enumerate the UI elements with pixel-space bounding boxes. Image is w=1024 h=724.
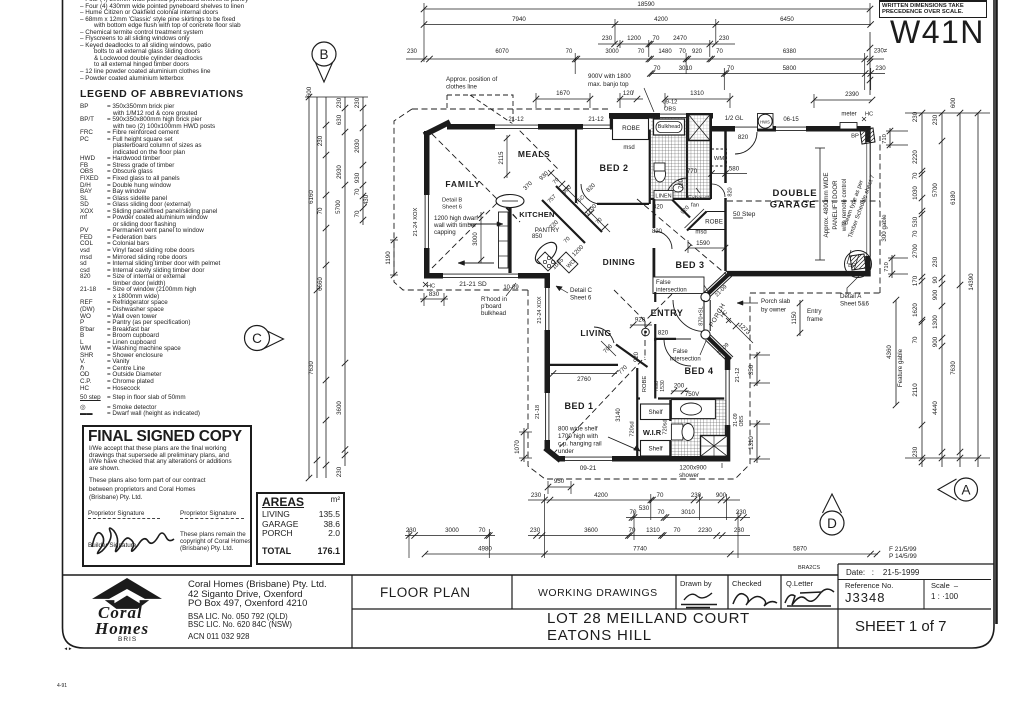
svg-text:430: 430 xyxy=(363,194,370,205)
svg-text:1530: 1530 xyxy=(660,380,666,392)
dim 1190 window xyxy=(393,240,395,275)
left dim chain D xyxy=(344,97,346,466)
svg-text:MEALS: MEALS xyxy=(518,149,550,159)
dim row 230 6070 70 3000 70 1480 70 920 70 6380 230 xyxy=(406,58,884,60)
left column: legend of abbreviations xyxy=(80,104,350,418)
bp pier top right xyxy=(860,128,875,144)
title block text xyxy=(188,580,327,609)
meals dim 2115 xyxy=(506,135,508,178)
marker A xyxy=(938,479,957,500)
svg-text:70: 70 xyxy=(638,49,645,55)
svg-text:2930: 2930 xyxy=(336,165,343,179)
roof hip dining xyxy=(614,290,676,321)
wall bath block top xyxy=(609,113,713,119)
final signed copy box xyxy=(82,425,252,567)
svg-text:70: 70 xyxy=(629,527,636,534)
roof hip bed4 xyxy=(644,321,646,360)
window 06-15 garage xyxy=(776,125,806,132)
linen cupboard xyxy=(654,191,673,201)
svg-text:70: 70 xyxy=(563,236,572,245)
svg-text:FAMILY: FAMILY xyxy=(445,179,480,189)
svg-text:3000: 3000 xyxy=(605,49,619,55)
svg-text:930: 930 xyxy=(354,172,361,183)
svg-text:3600: 3600 xyxy=(584,527,598,534)
svg-text:1150: 1150 xyxy=(792,311,798,325)
ens wc xyxy=(671,424,683,440)
svg-text:Shelf: Shelf xyxy=(648,409,662,416)
right chains bottom tie xyxy=(905,457,990,459)
svg-text:WM: WM xyxy=(714,156,724,162)
dim row 70 3010 70 5800 230 xyxy=(650,73,885,75)
dim 120 xyxy=(617,98,643,100)
svg-text:W.I.R: W.I.R xyxy=(643,428,662,437)
svg-text:920: 920 xyxy=(635,317,646,324)
svg-text:10-09: 10-09 xyxy=(503,285,519,291)
svg-text:2230: 2230 xyxy=(698,527,712,534)
svg-text:757: 757 xyxy=(547,194,558,205)
svg-text:PANELIFT DOOR: PANELIFT DOOR xyxy=(832,180,839,230)
svg-text:BED 4: BED 4 xyxy=(684,366,713,376)
wall wir ens divider xyxy=(669,400,671,421)
family arrow xyxy=(458,262,494,264)
svg-text:90: 90 xyxy=(932,276,939,283)
svg-text:DINING: DINING xyxy=(603,257,636,267)
title block top line xyxy=(63,574,839,576)
svg-text:09-12: 09-12 xyxy=(663,100,678,106)
ens vanity xyxy=(671,400,715,419)
roof valley dining-garage xyxy=(637,199,728,276)
builder signature squiggle xyxy=(86,515,178,559)
dim 2760 xyxy=(551,373,617,375)
svg-text:720sd: 720sd xyxy=(630,421,636,436)
svg-text:70: 70 xyxy=(912,336,919,343)
svg-text:bulkhead: bulkhead xyxy=(481,310,507,317)
svg-text:R'hood in: R'hood in xyxy=(481,296,508,303)
left dim chain B 6160 xyxy=(316,97,318,478)
svg-text:1200: 1200 xyxy=(571,244,585,258)
W41N xyxy=(890,14,985,51)
shower cubicle bath xyxy=(689,115,711,141)
svg-text:D: D xyxy=(827,516,837,531)
svg-text:HC: HC xyxy=(427,284,435,290)
dim 350 porch right xyxy=(756,352,758,386)
svg-text:530: 530 xyxy=(912,216,919,227)
svg-text:6160: 6160 xyxy=(308,190,315,204)
svg-text:max. banjo top: max. banjo top xyxy=(588,81,629,88)
svg-text:7630: 7630 xyxy=(308,361,315,375)
svg-text:1200: 1200 xyxy=(627,35,641,42)
svg-text:230: 230 xyxy=(875,65,886,72)
svg-text:230: 230 xyxy=(531,492,542,499)
svg-text:C: C xyxy=(252,331,262,346)
svg-text:230: 230 xyxy=(932,256,939,267)
kitchen bench left xyxy=(499,212,509,268)
kitchen stove xyxy=(537,252,556,271)
dim row C bottom xyxy=(405,535,495,537)
window 21-12 west xyxy=(495,123,538,130)
svg-text:170: 170 xyxy=(912,275,919,286)
svg-text:1590: 1590 xyxy=(696,240,710,247)
marker C xyxy=(261,328,284,350)
svg-text:900: 900 xyxy=(932,289,939,300)
wall wir west xyxy=(636,368,638,456)
svg-text:3600: 3600 xyxy=(336,401,343,415)
svg-text:750V: 750V xyxy=(685,391,700,398)
svg-text:70: 70 xyxy=(657,492,664,499)
svg-text:600: 600 xyxy=(950,97,957,108)
svg-text:7940: 7940 xyxy=(512,16,526,23)
svg-text:770: 770 xyxy=(687,168,698,175)
front door leaf xyxy=(703,300,705,331)
wall family left xyxy=(424,131,430,276)
svg-text:Entry: Entry xyxy=(807,308,822,315)
svg-text:5700: 5700 xyxy=(932,183,939,197)
svg-text:ROBE: ROBE xyxy=(622,125,640,132)
garage door opening 820 xyxy=(735,125,757,132)
svg-text:HC: HC xyxy=(865,112,873,118)
svg-text:710: 710 xyxy=(884,262,890,272)
bed4 door arc xyxy=(664,339,691,366)
kitchen oval column xyxy=(532,239,561,268)
kitchen dwarf wall xyxy=(508,205,511,273)
ens shower xyxy=(701,436,728,457)
svg-text:830: 830 xyxy=(429,291,440,298)
wall family bottom xyxy=(424,273,550,279)
svg-text:Feature gable: Feature gable xyxy=(897,348,904,387)
left dim chain A 600 7630 xyxy=(308,97,310,478)
svg-text:BED 1: BED 1 xyxy=(564,401,593,411)
svg-text:70: 70 xyxy=(566,49,573,55)
svg-text:370: 370 xyxy=(523,180,535,192)
svg-text:230: 230 xyxy=(336,97,343,108)
wall bed2 bath divider xyxy=(649,130,651,205)
pc column entry bottom xyxy=(701,330,710,339)
coral homes logo roof xyxy=(94,579,161,599)
svg-text:920: 920 xyxy=(634,351,640,362)
svg-text:70: 70 xyxy=(354,210,361,217)
pc column kitchen xyxy=(496,195,524,208)
svg-text:230: 230 xyxy=(912,111,919,122)
left column: legend heading xyxy=(80,88,244,100)
svg-text:OBS: OBS xyxy=(664,107,676,113)
svg-text:200: 200 xyxy=(674,383,685,390)
svg-text:Sheet 5&6: Sheet 5&6 xyxy=(840,301,869,308)
left dim chain C xyxy=(325,97,327,478)
svg-text:230: 230 xyxy=(317,135,324,146)
svg-text:LIVING: LIVING xyxy=(580,328,611,338)
wall bed3 bottom xyxy=(654,291,701,293)
svg-text:820: 820 xyxy=(652,229,663,235)
svg-text:820: 820 xyxy=(586,182,598,194)
robe bed2 xyxy=(613,119,649,140)
svg-text:DOUBLE: DOUBLE xyxy=(773,188,818,199)
wall ens north xyxy=(637,397,640,399)
wall living bed1 divider xyxy=(550,364,618,366)
svg-text:70: 70 xyxy=(912,172,919,179)
svg-text:1310: 1310 xyxy=(748,436,755,450)
svg-text:5700: 5700 xyxy=(335,200,342,214)
kitchen wall diag south xyxy=(542,200,585,243)
svg-text:70: 70 xyxy=(658,509,665,516)
svg-text:False: False xyxy=(673,349,688,355)
svg-text:230: 230 xyxy=(406,527,417,534)
svg-text:1300: 1300 xyxy=(932,315,939,329)
svg-text:A: A xyxy=(961,483,970,498)
svg-text:under: under xyxy=(558,448,574,455)
svg-text:230: 230 xyxy=(719,35,730,42)
svg-text:6180: 6180 xyxy=(950,191,957,205)
svg-text:intersection: intersection xyxy=(656,288,687,294)
dim row 230 1200 70 2470 230 xyxy=(598,43,735,45)
window 21-24 XOX family xyxy=(423,195,430,248)
svg-text:1200 high dwarf: 1200 high dwarf xyxy=(434,215,478,222)
right dim chain C xyxy=(959,113,961,467)
svg-text:630: 630 xyxy=(336,114,343,125)
false intersection box 1 xyxy=(653,277,704,294)
svg-text:Sheet 6: Sheet 6 xyxy=(442,205,462,211)
smoke detector entry xyxy=(642,328,650,336)
hws unit xyxy=(758,114,774,130)
dim 1590 robe xyxy=(688,247,725,249)
wall garage bottom xyxy=(727,271,871,277)
svg-text:wall with timber: wall with timber xyxy=(433,222,476,229)
svg-text:5800: 5800 xyxy=(783,65,797,72)
svg-text:Detail B: Detail B xyxy=(442,198,462,204)
bp pier bottom right xyxy=(845,251,872,278)
wall bed4 north entry xyxy=(655,338,676,340)
wall ens right xyxy=(725,357,731,456)
written dimensions box xyxy=(879,0,987,18)
svg-text:BP: BP xyxy=(851,134,859,140)
svg-text:frame: frame xyxy=(807,316,823,323)
svg-text:2390: 2390 xyxy=(845,91,859,98)
svg-text:2220: 2220 xyxy=(912,150,919,164)
roof outline bottom wing xyxy=(528,290,750,479)
wc bath xyxy=(655,166,666,182)
wall garage left xyxy=(724,131,727,183)
bath door arc xyxy=(666,178,687,199)
svg-text:230≠: 230≠ xyxy=(874,49,888,55)
svg-text:120̸: 120̸ xyxy=(623,90,634,97)
wall bath internal 1 xyxy=(686,119,688,200)
roof ridge garage xyxy=(727,200,880,202)
svg-text:770: 770 xyxy=(618,364,630,376)
svg-text:920: 920 xyxy=(680,205,691,216)
svg-text:fan: fan xyxy=(691,203,699,209)
svg-text:230: 230 xyxy=(336,466,343,477)
kitchen wall diag north xyxy=(556,186,602,232)
dim 4360 feature gable xyxy=(895,300,897,405)
svg-text:p'board: p'board xyxy=(481,303,502,310)
svg-text:1190: 1190 xyxy=(385,251,392,265)
svg-text:1480: 1480 xyxy=(658,49,672,55)
svg-text:6380: 6380 xyxy=(783,49,797,55)
right chains top tie xyxy=(905,112,990,114)
pc column entry top xyxy=(701,292,710,301)
svg-text:21-12: 21-12 xyxy=(588,117,604,123)
svg-text:2700: 2700 xyxy=(912,244,919,258)
svg-text:710: 710 xyxy=(882,134,888,144)
kitchen diag dim line xyxy=(548,170,610,232)
svg-text:6070: 6070 xyxy=(495,49,509,55)
dim 1310 top xyxy=(665,98,730,100)
svg-text:50 Step: 50 Step xyxy=(733,211,756,218)
svg-text:msd: msd xyxy=(623,145,634,151)
svg-text:18590: 18590 xyxy=(637,1,655,8)
svg-text:230: 230 xyxy=(736,509,747,516)
svg-text:70: 70 xyxy=(716,49,723,55)
svg-text:1310: 1310 xyxy=(646,527,660,534)
wall garage top xyxy=(711,126,868,132)
roof valley meals xyxy=(513,124,560,171)
svg-text:Porch slab: Porch slab xyxy=(761,298,791,305)
svg-text:70: 70 xyxy=(654,65,661,72)
svg-text:intersection: intersection xyxy=(670,357,701,363)
window 21-12 bed4 xyxy=(724,370,731,425)
svg-text:2030: 2030 xyxy=(354,139,361,153)
svg-text:3010: 3010 xyxy=(681,509,695,516)
svg-text:820: 820 xyxy=(738,134,749,141)
svg-text:meter: meter xyxy=(841,112,856,118)
ens tiled floor xyxy=(671,400,726,457)
wall porch diagonal upper 21-09 xyxy=(706,274,730,296)
svg-text:HWS: HWS xyxy=(760,119,770,124)
basin bath xyxy=(673,184,683,192)
svg-text:LINEN: LINEN xyxy=(655,194,671,200)
svg-text:3010: 3010 xyxy=(679,65,693,72)
roof hip family xyxy=(432,134,520,268)
svg-text:70: 70 xyxy=(317,207,324,214)
window 21-24 XOX living xyxy=(544,288,551,330)
window 09-21 bed1 xyxy=(565,455,612,462)
svg-text:OBS: OBS xyxy=(739,415,745,426)
hall diagonal wall xyxy=(672,200,690,218)
svg-text:230: 230 xyxy=(602,35,613,42)
dim row A bottom xyxy=(528,499,740,501)
svg-text:3000: 3000 xyxy=(473,232,479,246)
wall left wing top xyxy=(447,124,612,130)
svg-text:70: 70 xyxy=(727,65,734,72)
svg-text:Sheet 6: Sheet 6 xyxy=(570,295,592,302)
window 21-12 east xyxy=(583,123,610,130)
svg-text:clothes line: clothes line xyxy=(446,84,478,91)
svg-text:1200: 1200 xyxy=(584,203,598,217)
wall robe bed4 west xyxy=(654,338,656,399)
svg-text:820: 820 xyxy=(728,187,734,196)
svg-text:21-21 SD: 21-21 SD xyxy=(459,281,487,288)
svg-text:720sd: 720sd xyxy=(663,419,669,434)
svg-text:Approx. 4800mm WIDE: Approx. 4800mm WIDE xyxy=(823,173,830,238)
svg-text:70: 70 xyxy=(912,230,919,237)
svg-text:ROBE: ROBE xyxy=(705,219,723,226)
svg-text:3000: 3000 xyxy=(445,527,459,534)
svg-text:7630: 7630 xyxy=(950,361,957,375)
svg-text:1620: 1620 xyxy=(912,303,919,317)
svg-text:1310: 1310 xyxy=(690,90,704,97)
svg-text:1700 high with: 1700 high with xyxy=(558,433,598,440)
svg-text:230: 230 xyxy=(691,492,702,499)
left chains top tie line xyxy=(305,96,368,98)
right dim chain D xyxy=(977,113,979,467)
svg-text:4440: 4440 xyxy=(932,401,939,415)
svg-text:1070: 1070 xyxy=(514,440,521,454)
dim 580 xyxy=(711,173,747,175)
shelf box bottom xyxy=(641,441,671,457)
svg-text:230: 230 xyxy=(530,527,541,534)
dim 2390 garage xyxy=(814,99,872,101)
svg-text:5870: 5870 xyxy=(793,546,807,553)
window 09-12 bath top xyxy=(660,112,686,119)
svg-text:7740: 7740 xyxy=(633,546,647,553)
dim 1273 porch xyxy=(719,309,753,343)
wall garage right xyxy=(865,126,871,142)
svg-text:530: 530 xyxy=(639,505,650,512)
svg-text:1030: 1030 xyxy=(912,186,919,200)
svg-text:2110: 2110 xyxy=(912,383,919,397)
svg-text:2470: 2470 xyxy=(673,35,687,42)
panelift bracket xyxy=(819,148,821,260)
svg-text:1200x900: 1200x900 xyxy=(679,465,707,472)
wall bath right xyxy=(710,113,713,199)
svg-text:6450: 6450 xyxy=(780,16,794,23)
svg-text:4360: 4360 xyxy=(886,345,893,359)
dim 1670 xyxy=(536,98,590,100)
svg-text:580: 580 xyxy=(729,166,740,173)
svg-text:Detail A: Detail A xyxy=(840,293,862,300)
svg-text:230: 230 xyxy=(354,97,361,108)
svg-text:720: 720 xyxy=(679,178,685,189)
svg-text:21-24 XOX: 21-24 XOX xyxy=(537,296,543,324)
svg-text:c.p. hanging rail: c.p. hanging rail xyxy=(558,441,602,448)
dim 830 xyxy=(420,298,448,300)
title block row divider xyxy=(352,608,991,610)
svg-text:Detail C: Detail C xyxy=(570,287,593,294)
svg-text:by owner: by owner xyxy=(761,307,786,314)
window 21-18 bed1 xyxy=(544,393,551,440)
svg-text:70: 70 xyxy=(354,188,361,195)
svg-text:21-18: 21-18 xyxy=(535,405,541,419)
kitchen wo tower xyxy=(557,252,578,273)
svg-text:930: 930 xyxy=(539,170,551,182)
svg-text:870+SL: 870+SL xyxy=(699,306,705,325)
dim 920 entry xyxy=(630,324,652,326)
svg-text:False: False xyxy=(656,280,671,286)
right dim chain A xyxy=(921,113,923,467)
svg-text:2115: 2115 xyxy=(499,151,505,165)
svg-text:KITCHEN: KITCHEN xyxy=(519,210,554,219)
svg-text:ENTRY: ENTRY xyxy=(651,308,684,318)
wall bottom wing bottom xyxy=(558,456,730,462)
svg-text:shower: shower xyxy=(679,472,699,479)
bath tiled floor xyxy=(651,117,710,198)
svg-text:800 wide shelf: 800 wide shelf xyxy=(558,426,598,433)
svg-text:06-15: 06-15 xyxy=(783,117,799,123)
svg-text:Approx. position of: Approx. position of xyxy=(446,76,498,83)
svg-text:4200: 4200 xyxy=(654,16,668,23)
dim 710 bottom BP xyxy=(891,255,893,278)
svg-text:ROBE: ROBE xyxy=(642,376,648,393)
roof outline left wing xyxy=(394,109,610,290)
svg-text:Shelf: Shelf xyxy=(648,446,662,453)
svg-text:920: 920 xyxy=(692,49,703,55)
svg-text:350: 350 xyxy=(748,364,755,375)
svg-text:GARAGE: GARAGE xyxy=(770,200,817,211)
wall meals bed2 divider xyxy=(575,130,577,204)
svg-text:600: 600 xyxy=(306,86,313,97)
right top small chain xyxy=(869,32,871,95)
wall family top-left diagonal xyxy=(424,122,450,135)
svg-text:capping: capping xyxy=(434,229,456,236)
